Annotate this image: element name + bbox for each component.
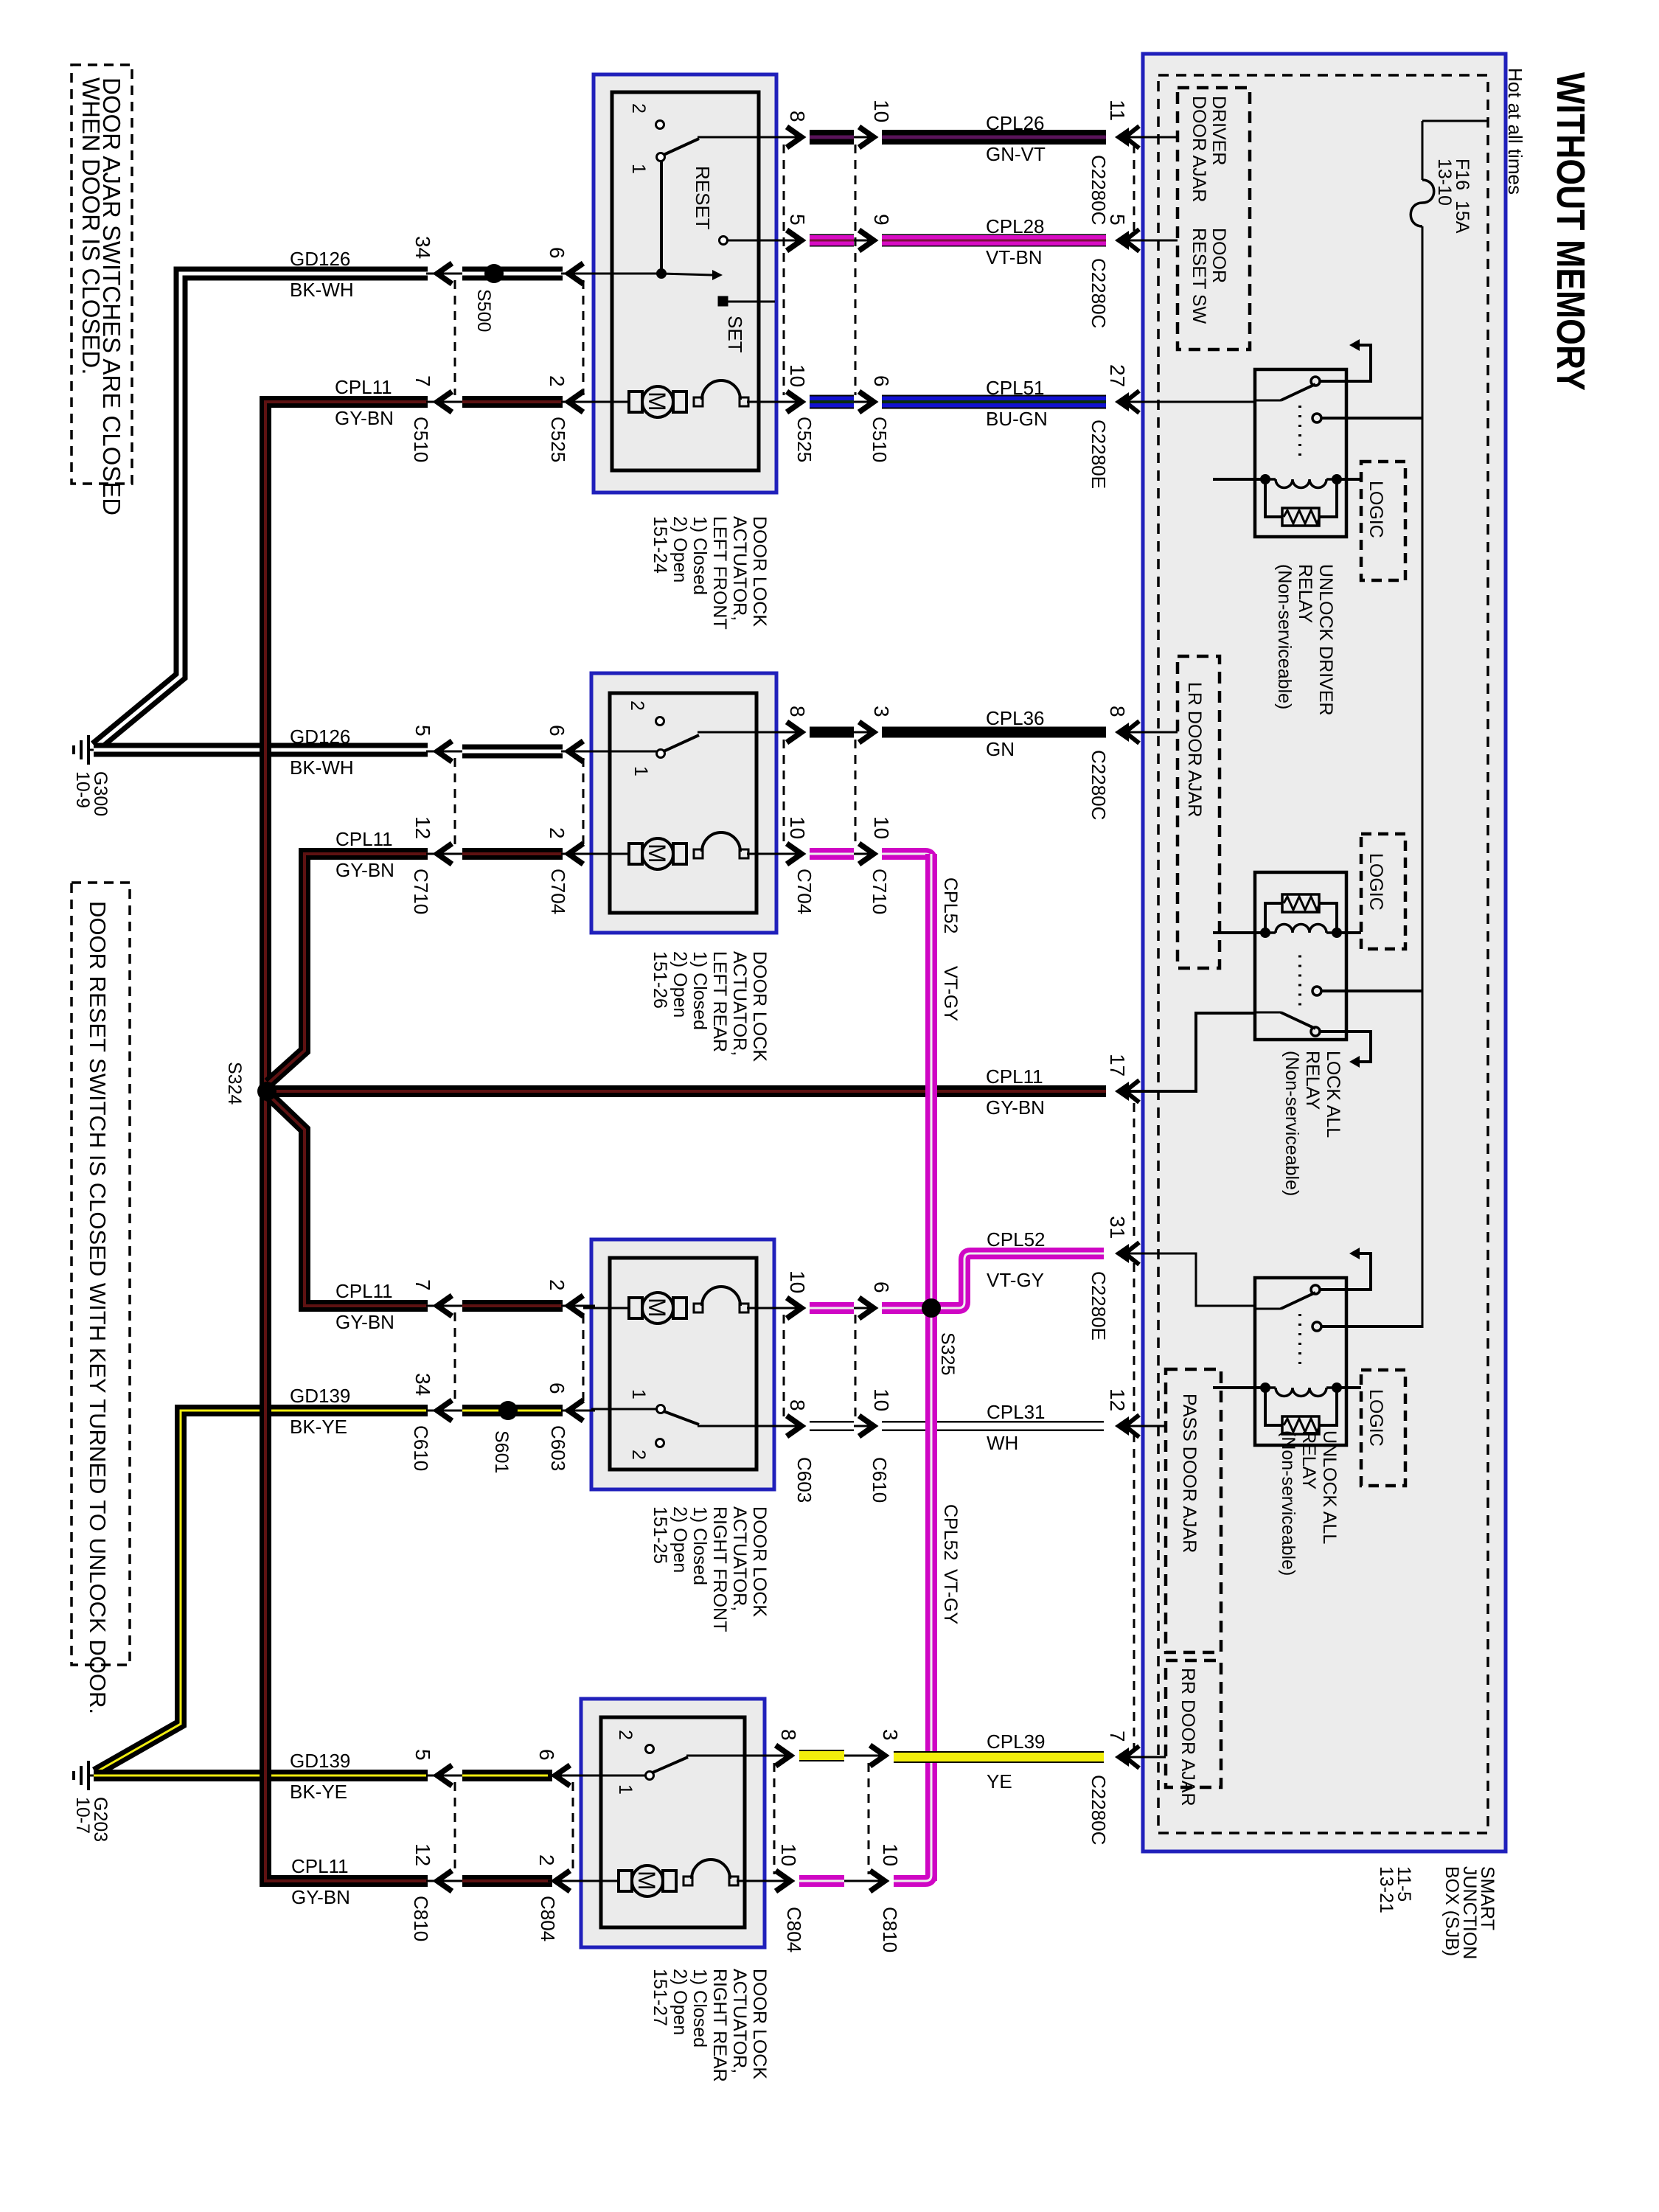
svg-text:10: 10 [786,1270,809,1293]
svg-text:8: 8 [1106,706,1129,717]
svg-text:2: 2 [615,1730,636,1740]
svg-text:12: 12 [411,816,434,839]
left front switch contact 2 [656,121,664,129]
svg-text:DOOR LOCK: DOOR LOCK [749,1506,770,1617]
svg-text:ACTUATOR,: ACTUATOR, [729,1506,750,1611]
svg-text:2) Open: 2) Open [669,516,690,582]
wire CPL11 GY-BN run to SJB pin 17 [267,1085,1106,1097]
connector C2280C dashed line [1133,145,1135,233]
right front switch contact 2 [656,1439,664,1447]
svg-text:UNLOCK DRIVER: UNLOCK DRIVER [1315,564,1336,716]
svg-text:WITHOUT MEMORY: WITHOUT MEMORY [1548,72,1593,391]
wire GD126 BK-WH upper run to S500 [95,274,428,747]
note box door reset switch [72,883,130,1714]
connector C610 dashed line [454,1312,456,1404]
svg-text:RELAY: RELAY [1298,1430,1319,1489]
svg-text:VT-BN: VT-BN [986,246,1043,268]
connector C810 dashed line [454,1782,456,1874]
connector C510 dashed line [454,280,456,395]
svg-text:10: 10 [777,1843,800,1866]
wire CPL39 YE [765,1755,789,1757]
svg-text:BK-WH: BK-WH [290,279,354,301]
svg-text:BK-YE: BK-YE [290,1416,347,1438]
connector C610 dashed line right [855,1315,857,1419]
ground G203 [72,1761,111,1842]
svg-text:VT-GY: VT-GY [940,1569,961,1624]
svg-text:5: 5 [786,214,809,226]
splice S325 [922,1298,941,1318]
svg-text:(Non-serviceable): (Non-serviceable) [1278,1430,1298,1576]
svg-text:5: 5 [411,1749,434,1761]
sub-box DRIVER DOOR AJAR / DOOR RESET SW [1178,88,1250,349]
connector C710 dashed line right [855,740,857,847]
svg-text:ACTUATOR,: ACTUATOR, [729,516,750,621]
svg-text:LOCK ALL: LOCK ALL [1323,1051,1343,1138]
left front switch pivot 1 [657,153,665,161]
svg-text:151-25: 151-25 [650,1506,670,1564]
connector C710 wires row2 left [426,751,465,753]
relay LOCK ALL RELAY (Non-serviceable) [1213,834,1422,1196]
svg-text:GD139: GD139 [290,1750,350,1772]
svg-text:CPL36: CPL36 [986,707,1045,729]
left front reset-set selector [661,274,712,275]
svg-text:10-7: 10-7 [72,1797,93,1834]
svg-text:LOGIC: LOGIC [1366,853,1386,911]
svg-text:9: 9 [870,214,893,226]
svg-text:C603: C603 [793,1457,815,1503]
wire GD126 BK-WH lower run from G300 [94,743,428,757]
svg-text:CPL31: CPL31 [987,1401,1046,1423]
connector C525 dashed line right [783,145,785,395]
svg-text:CPL51: CPL51 [986,377,1045,399]
left rear label [650,951,770,1062]
fuse F16 15A [1411,159,1472,234]
svg-text:M: M [644,844,670,863]
svg-text:1) Closed: 1) Closed [689,1506,710,1585]
connector C603 dashed line right [783,1315,785,1419]
connector C704 dashed line right [783,740,785,847]
svg-text:CPL52: CPL52 [987,1228,1046,1251]
svg-text:27: 27 [1106,364,1129,387]
svg-text:1: 1 [615,1784,636,1795]
svg-text:VT-GY: VT-GY [940,966,961,1021]
left front switch blade [664,139,699,155]
right rear switch common wire [686,1755,787,1757]
svg-text:LR DOOR AJAR: LR DOOR AJAR [1184,682,1205,817]
svg-text:DOOR LOCK: DOOR LOCK [749,951,770,1062]
svg-text:BOX (SJB): BOX (SJB) [1441,1866,1462,1956]
SJB internal wire pin 31 to unlock all relay [1130,1253,1255,1306]
svg-text:CPL26: CPL26 [986,112,1045,134]
left rear motor M [629,844,642,864]
wire CPL11 GY-BN branch to right front [270,1096,428,1306]
svg-text:DRIVER: DRIVER [1208,96,1229,165]
connector C603 dashed line left [582,1315,585,1402]
relay UNLOCK ALL RELAY (Non-serviceable) [1213,1248,1422,1576]
svg-text:151-27: 151-27 [650,1969,670,2026]
svg-text:6: 6 [546,247,568,259]
svg-text:34: 34 [411,1373,434,1396]
svg-text:34: 34 [411,236,434,259]
svg-text:UNLOCK ALL: UNLOCK ALL [1319,1430,1340,1544]
svg-text:C704: C704 [547,869,569,914]
wire CPL26 GN-VT [776,136,800,139]
svg-text:1: 1 [628,164,649,174]
connector C804 dashed line left [572,1782,574,1874]
svg-text:8: 8 [777,1729,800,1741]
svg-text:CPL39: CPL39 [987,1731,1046,1753]
svg-text:5: 5 [411,725,434,737]
svg-text:10: 10 [786,364,809,387]
actuator box DOOR LOCK ACTUATOR RIGHT REAR [581,1699,765,1947]
svg-text:LEFT REAR: LEFT REAR [709,951,730,1052]
svg-text:C804: C804 [537,1896,559,1941]
svg-text:6: 6 [546,725,568,737]
svg-text:CPL52: CPL52 [940,1504,961,1560]
svg-text:C2280E: C2280E [1088,1271,1110,1340]
left rear switch pivot 1 [657,750,665,758]
relay UNLOCK DRIVER RELAY (Non-serviceable) [1213,339,1422,716]
wire CPL52 VT-GY from right front motor [776,1307,800,1310]
connector C810 wires row4 left [426,1775,465,1777]
right rear switch pivot 1 [646,1772,654,1780]
svg-text:C704: C704 [793,869,815,914]
svg-text:C510: C510 [869,417,891,462]
svg-text:2: 2 [546,827,568,839]
svg-text:S601: S601 [491,1430,512,1473]
SJB internal wire pin 27 to unlock driver relay [1130,401,1255,403]
svg-text:151-24: 151-24 [650,516,670,574]
svg-text:RIGHT FRONT: RIGHT FRONT [709,1506,730,1632]
left rear switch common wire [698,731,796,734]
left front common junction [656,268,667,279]
wire CPL28 VT-BN [776,240,800,242]
svg-text:CPL11: CPL11 [986,1065,1043,1088]
SJB internal wire pin 17 to lock all relay [1130,1013,1255,1091]
svg-text:C804: C804 [783,1907,805,1952]
right rear motor M [619,1871,632,1891]
svg-text:ACTUATOR,: ACTUATOR, [729,1969,750,2073]
svg-text:VT-GY: VT-GY [987,1269,1044,1291]
connector C510 wires row1 left [426,273,465,275]
svg-text:6: 6 [870,375,893,387]
svg-text:C710: C710 [410,869,432,914]
wire CPL52 VT-GY branch to SJB pin 31 [931,1253,1104,1308]
svg-text:YE: YE [987,1770,1012,1792]
splice S500 [484,264,504,283]
svg-text:WHEN DOOR IS CLOSED.: WHEN DOOR IS CLOSED. [77,77,105,375]
svg-text:17: 17 [1106,1054,1129,1077]
svg-text:M: M [644,1298,670,1318]
svg-text:2) Open: 2) Open [669,951,690,1018]
actuator box DOOR LOCK ACTUATOR LEFT REAR [591,673,776,933]
wire CPL52 VT-GY from left rear motor [776,853,800,855]
svg-text:Hot at all times: Hot at all times [1504,68,1526,195]
svg-text:GY-BN: GY-BN [335,859,394,881]
svg-text:1: 1 [630,766,651,776]
svg-text:13-10: 13-10 [1434,159,1455,206]
svg-text:151-26: 151-26 [650,951,670,1009]
svg-text:(Non-serviceable): (Non-serviceable) [1281,1051,1302,1196]
svg-text:10: 10 [879,1843,902,1866]
left rear switch blade [664,735,699,751]
svg-text:11: 11 [1106,100,1129,121]
svg-text:BK-YE: BK-YE [290,1781,347,1803]
svg-text:RESET SW: RESET SW [1189,228,1209,324]
svg-text:2: 2 [546,1279,568,1291]
svg-text:C710: C710 [869,869,891,914]
svg-text:BU-GN: BU-GN [986,408,1048,430]
svg-text:GY-BN: GY-BN [291,1886,350,1908]
svg-text:DOOR LOCK: DOOR LOCK [749,1969,770,2079]
svg-text:GN-VT: GN-VT [986,143,1046,165]
svg-text:10: 10 [870,1388,893,1411]
left front RESET contact [720,237,728,245]
right front motor M [629,1298,642,1318]
connector C804 dashed line right [773,1763,776,1874]
fuse F16 15A feed wire [1422,121,1488,180]
svg-text:3: 3 [870,706,893,717]
svg-text:10-9: 10-9 [72,771,93,808]
svg-text:CPL52: CPL52 [940,877,961,933]
svg-text:C810: C810 [879,1907,901,1952]
right front switch pivot 1 [657,1405,665,1413]
svg-text:2: 2 [628,103,649,114]
svg-text:2: 2 [535,1854,558,1866]
right front switch common wire [698,1425,796,1427]
svg-text:10: 10 [870,100,893,122]
svg-text:GY-BN: GY-BN [335,1311,394,1333]
wire CPL52 VT-GY trunk [925,854,937,1881]
wire CPL11 GY-BN branch to left rear [268,854,428,1083]
svg-text:2: 2 [546,375,568,387]
svg-text:GY-BN: GY-BN [335,407,394,429]
SJB internal wire to pin 8 LR door ajar [1130,731,1178,734]
svg-text:6: 6 [546,1382,568,1394]
svg-text:CPL11: CPL11 [291,1855,349,1877]
wire GD139 BK-YE upper run [95,1411,428,1773]
connector C2280E dashed line pins 31-12 [1133,1263,1135,1419]
svg-text:8: 8 [786,111,809,122]
svg-text:C610: C610 [869,1457,891,1503]
SJB internal wire to pin 11 [1130,136,1178,139]
svg-text:GD126: GD126 [290,248,350,270]
svg-text:RIGHT REAR: RIGHT REAR [709,1969,730,2082]
svg-text:13-21: 13-21 [1376,1866,1397,1913]
svg-text:S324: S324 [224,1062,245,1105]
connector C704 dashed line left [582,758,585,847]
svg-text:12: 12 [1106,1388,1129,1411]
svg-text:LOGIC: LOGIC [1366,481,1386,538]
left rear switch contact 2 [656,717,664,726]
svg-text:DOOR: DOOR [1208,228,1229,283]
svg-text:RELAY: RELAY [1295,564,1315,623]
svg-text:GD139: GD139 [290,1385,350,1407]
left front label [650,516,770,630]
svg-text:10: 10 [870,816,893,839]
svg-text:1) Closed: 1) Closed [689,951,710,1030]
svg-text:DOOR RESET SWITCH IS CLOSED WI: DOOR RESET SWITCH IS CLOSED WITH KEY TUR… [85,901,111,1714]
smart junction box SJB outline [1143,54,1506,1851]
left front SET contact [719,297,727,305]
connector C610 wires row3 left [426,1305,465,1307]
svg-text:(Non-serviceable): (Non-serviceable) [1274,564,1295,709]
right front label [650,1506,770,1632]
svg-text:3: 3 [879,1729,902,1741]
ground G300 [72,735,111,816]
wire CPL31 WH [776,1425,800,1427]
sub-box RR DOOR AJAR [1166,1660,1221,1806]
SJB internal wire to pin 12 pass door ajar [1130,1425,1166,1427]
wire GD139 BK-YE lower run from G203 [94,1770,428,1781]
svg-text:S325: S325 [937,1332,958,1375]
SJB internal wire to pin 7 rr door ajar [1130,1756,1166,1759]
svg-text:C603: C603 [547,1425,569,1471]
connector C810 dashed line right [868,1763,870,1874]
svg-text:GD126: GD126 [290,726,350,748]
wire CPL52 VT-GY from right rear motor [765,1880,789,1882]
svg-text:C525: C525 [793,417,815,462]
svg-text:ACTUATOR,: ACTUATOR, [729,951,750,1056]
svg-text:1) Closed: 1) Closed [689,516,710,595]
svg-text:RESET: RESET [692,166,714,230]
svg-text:CPL11: CPL11 [335,376,392,398]
connector C510 dashed line right [855,145,857,395]
svg-text:GY-BN: GY-BN [986,1096,1045,1119]
connector C2280C dashed line pins 12-7 [1133,1433,1135,1750]
svg-text:M: M [644,392,670,411]
right rear switch blade [653,1757,688,1773]
svg-text:LEFT FRONT: LEFT FRONT [709,516,730,630]
sub-box LR DOOR AJAR [1178,656,1220,968]
connector C2280E dashed line pins 17-31 [1133,1103,1135,1241]
actuator box DOOR LOCK ACTUATOR RIGHT FRONT [591,1239,774,1489]
sub-box PASS DOOR AJAR [1166,1369,1221,1652]
svg-text:C2280E: C2280E [1088,420,1110,489]
svg-text:1) Closed: 1) Closed [689,1969,710,2048]
svg-text:7: 7 [411,375,434,387]
right rear switch contact 2 [646,1745,654,1753]
svg-text:7: 7 [411,1279,434,1291]
svg-text:DOOR AJAR: DOOR AJAR [1189,96,1209,202]
svg-text:5: 5 [1106,214,1129,226]
left front switch feed wire [660,161,663,274]
svg-text:C2280C: C2280C [1088,750,1110,820]
svg-text:WH: WH [987,1432,1018,1454]
svg-text:6: 6 [535,1749,558,1761]
svg-text:8: 8 [786,1399,809,1411]
splice S601 [498,1401,518,1420]
svg-text:2: 2 [627,700,647,711]
svg-text:CPL11: CPL11 [335,828,393,850]
right rear label [650,1969,770,2082]
svg-text:DOOR LOCK: DOOR LOCK [749,516,770,627]
svg-text:M: M [633,1871,660,1891]
svg-text:10: 10 [786,816,809,839]
splice S324 [257,1082,276,1101]
svg-text:C610: C610 [410,1425,432,1471]
left front switch common wire [698,136,796,139]
SJB label SMART JUNCTION BOX (SJB) 11-5 13-21 [1376,1866,1498,1959]
svg-text:RR DOOR AJAR: RR DOOR AJAR [1178,1668,1198,1806]
svg-text:7: 7 [1106,1731,1129,1742]
wire CPL36 GN [776,731,800,734]
svg-text:2: 2 [628,1450,649,1460]
wire CPL11 GY-BN trunk [265,402,428,1881]
right front switch blade [664,1411,699,1425]
actuator box DOOR LOCK ACTUATOR LEFT FRONT [594,74,776,493]
svg-text:C810: C810 [410,1896,432,1941]
svg-text:GN: GN [986,738,1015,760]
svg-text:SET: SET [724,316,746,353]
SJB inner dashed boundary [1158,75,1488,1833]
svg-text:31: 31 [1106,1216,1129,1239]
svg-text:BK-WH: BK-WH [290,757,354,779]
svg-text:12: 12 [411,1843,434,1866]
svg-text:1: 1 [628,1389,649,1399]
connector C710 dashed line [454,758,456,847]
svg-text:6: 6 [870,1281,893,1293]
svg-text:S500: S500 [473,289,494,332]
note box door ajar switches [72,65,132,515]
wire CPL51 BU-GN [776,401,800,403]
svg-text:2) Open: 2) Open [669,1506,690,1573]
connector C525 dashed line left [582,280,585,395]
svg-text:CPL11: CPL11 [335,1280,393,1302]
svg-text:CPL28: CPL28 [986,215,1045,237]
svg-text:8: 8 [786,706,809,717]
svg-text:PASS DOOR AJAR: PASS DOOR AJAR [1179,1394,1200,1553]
svg-text:C2280C: C2280C [1088,258,1110,328]
svg-text:RELAY: RELAY [1302,1051,1323,1110]
svg-text:C525: C525 [547,417,569,462]
SJB internal wire to pin 5 [1130,240,1178,242]
left front motor M [629,392,642,412]
svg-text:C510: C510 [410,417,432,462]
svg-text:LOGIC: LOGIC [1366,1389,1386,1447]
svg-text:2) Open: 2) Open [669,1969,690,2035]
svg-text:C2280C: C2280C [1088,1775,1110,1845]
SJB internal power bus from fuse [1422,226,1424,1328]
